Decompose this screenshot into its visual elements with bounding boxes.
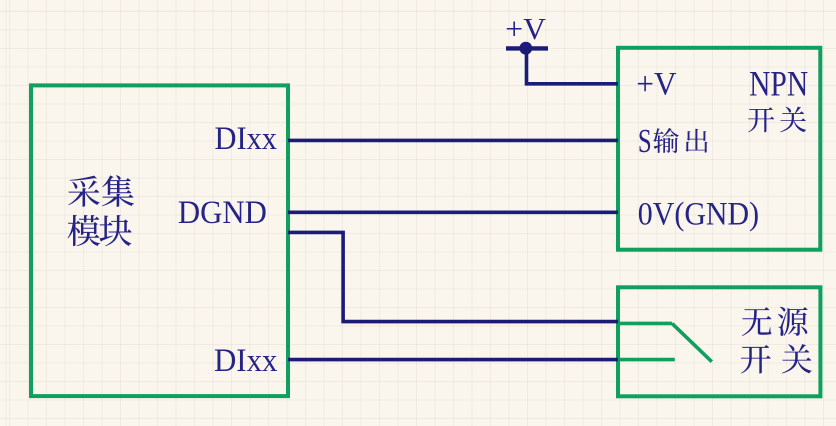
svg-text:+V: +V (505, 11, 546, 46)
pin label char 输 (653, 128, 679, 153)
wire DIxx bottom to switch bottom (288, 358, 618, 362)
module title char 采 (68, 176, 100, 207)
NPN title char 关 (780, 107, 806, 133)
svg-text:NPN: NPN (749, 64, 808, 104)
power symbol +V bar (506, 46, 548, 50)
module title char 模 (68, 215, 101, 246)
passive switch box U3 (618, 287, 820, 396)
switch SW1 blade (672, 323, 712, 361)
svg-text:DGND: DGND (178, 195, 267, 231)
switch SW1 top contact (618, 322, 672, 326)
passive title char 源 (778, 307, 808, 336)
NPN switch box U2 (618, 48, 820, 250)
wire DGND to 0V(GND) (288, 211, 618, 215)
svg-text:DIxx: DIxx (214, 343, 278, 379)
passive title char 关 (782, 344, 812, 373)
svg-text:0V(GND): 0V(GND) (638, 197, 759, 233)
NPN title char 开 (748, 107, 774, 132)
wire +V power to +V pin (527, 48, 619, 84)
passive title char 无 (742, 307, 772, 336)
wire DGND branch to switch top (288, 232, 618, 321)
module title char 集 (102, 175, 134, 207)
switch SW1 bottom contact (618, 358, 675, 362)
junction dot (519, 42, 532, 55)
module title char 块 (99, 215, 131, 246)
acquisition module box U1 (31, 85, 288, 396)
svg-text:+V: +V (636, 67, 677, 103)
passive title char 开 (741, 345, 771, 374)
svg-text:DIxx: DIxx (215, 121, 278, 157)
pin label char 出 (686, 129, 708, 153)
svg-text:S: S (638, 123, 652, 160)
wire DIxx to S output (288, 139, 618, 143)
